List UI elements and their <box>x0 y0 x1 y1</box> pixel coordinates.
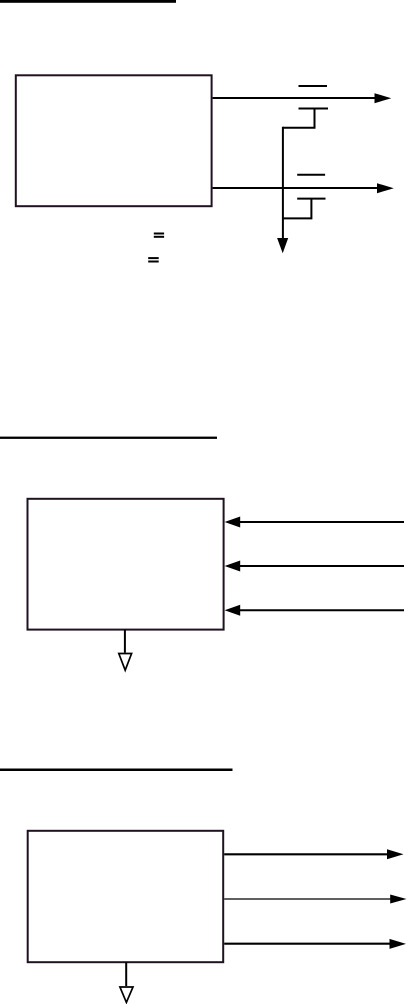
stem wire below U3 <box>125 962 127 986</box>
wire output 2 of U1 <box>213 187 378 189</box>
arrowhead output 2 of U3 <box>390 895 406 904</box>
arrowhead input 3 of U2 <box>225 605 241 616</box>
wire output 1 of U1 <box>213 97 376 99</box>
open down arrowhead below U3 <box>120 987 133 1002</box>
arrowhead output 1 of U1 <box>375 93 392 103</box>
open down arrowhead below U2 <box>119 654 132 671</box>
output wire 3 of U3 <box>224 943 390 945</box>
output wire 1 of U3 <box>224 853 388 855</box>
input wire 2 of U2 <box>239 565 404 567</box>
equals sign 1 <box>154 233 164 235</box>
stem wire from plate of output 1 <box>283 109 315 128</box>
heading underline (top, clipped) <box>0 0 176 3</box>
arrowhead input 1 of U2 <box>225 517 241 528</box>
arrowhead output 2 of U1 <box>377 183 394 193</box>
capacitor plate below output 1 <box>299 108 329 110</box>
arrowhead output 3 of U3 <box>390 939 407 949</box>
stem wire below U2 <box>124 630 126 653</box>
stem wire from plate of output 2 <box>283 199 312 219</box>
block box U2 <box>28 499 224 630</box>
arrowhead input 2 of U2 <box>225 561 241 572</box>
capacitor plate below output 2 <box>297 198 325 200</box>
equals sign 2 <box>148 257 159 259</box>
block box U3 <box>28 831 224 962</box>
capacitor plate above output 2 <box>297 174 325 176</box>
block box U1 <box>16 75 212 206</box>
output wire 2 of U3 (thin) <box>224 898 391 900</box>
heading underline (middle) <box>0 437 217 439</box>
heading underline (bottom) <box>0 769 233 772</box>
solid down arrowhead (ground) <box>277 238 288 253</box>
arrowhead output 1 of U3 <box>387 849 404 859</box>
capacitor plate above output 1 <box>299 85 328 87</box>
input wire 1 of U2 <box>239 521 404 523</box>
input wire 3 of U2 <box>239 609 404 611</box>
vertical wire to ground arrow <box>282 127 284 239</box>
